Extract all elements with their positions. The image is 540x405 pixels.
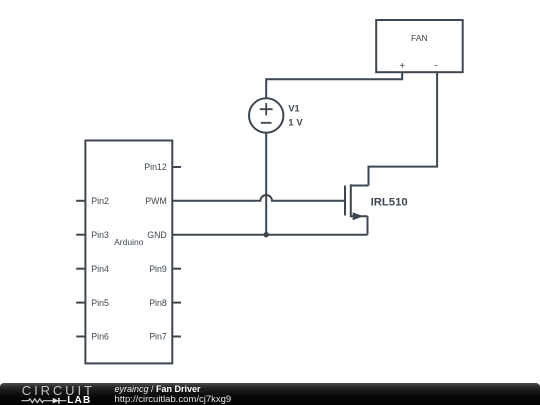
svg-text:Pin5: Pin5 [91,298,109,308]
pin label Pin7 [149,332,167,342]
label FAN + terminal [399,61,405,72]
footer black bar [0,383,540,405]
svg-text:Pin6: Pin6 [91,332,109,342]
svg-text:-: - [434,60,437,71]
pin label Pin3 [91,230,109,240]
pin label Pin5 [91,298,109,308]
transistor Q1 IRL510 (NMOS) [345,184,369,220]
pin label GND [147,230,167,240]
wire V1 negative terminal down to GND net [265,133,267,235]
svg-text:Pin8: Pin8 [149,298,167,308]
wire GND: Arduino GND pin to Q1 source [172,234,367,236]
label FAN [411,33,428,43]
CircuitLab logo: resistor + diode squiggle [21,396,67,405]
svg-text:Pin9: Pin9 [149,264,167,274]
svg-text:1 V: 1 V [288,118,303,128]
svg-text:Pin3: Pin3 [91,230,109,240]
svg-text:Pin2: Pin2 [91,196,109,206]
component FAN (fan box) [376,20,463,72]
component U1 Arduino box [85,141,172,364]
pin Pin2 [76,200,85,202]
label Arduino [114,237,144,247]
pin Pin4 [76,268,85,270]
pin label Pin2 [91,196,109,206]
pin Pin9 [172,268,181,270]
pin label Pin4 [91,264,109,274]
svg-text:Pin7: Pin7 [149,332,167,342]
pin label Pin6 [91,332,109,342]
CircuitLab logo: LAB wordmark [67,396,91,405]
label 1 V [288,118,303,128]
pin Pin12 [172,166,181,168]
pin label Pin8 [149,298,167,308]
pin label Pin12 [144,162,167,172]
svg-text:Pin12: Pin12 [144,162,167,172]
pin Pin6 [76,336,85,338]
svg-text:IRL510: IRL510 [371,197,408,209]
wire FAN + terminal to V1 positive terminal [266,72,402,98]
pin Pin7 [172,336,181,338]
svg-text:+: + [399,61,405,72]
label FAN - terminal [434,60,437,71]
svg-text:GND: GND [147,230,167,240]
pin Pin3 [76,234,85,236]
footer text: url [115,395,232,405]
svg-text:FAN: FAN [411,33,428,43]
pin label Pin9 [149,264,167,274]
wire Q1 source down to GND net [367,216,369,235]
svg-text:V1: V1 [288,104,299,114]
wire FAN - terminal to Q1 drain [369,72,438,185]
CircuitLab logo: CIRCUIT wordmark [22,385,95,396]
voltage source V1 [249,98,283,132]
svg-text:Pin4: Pin4 [91,264,109,274]
svg-text:PWM: PWM [145,196,167,206]
label IRL510 [371,197,408,209]
footer text: author / title [115,384,201,394]
pin Pin5 [76,302,85,304]
label V1 [288,104,299,114]
wire PWM: Arduino PWM pin to Q1 gate (with hop over V1 wire) [172,195,344,201]
svg-text:Arduino: Arduino [114,237,144,247]
pin Pin8 [172,302,181,304]
pin label PWM [145,196,167,206]
junction dot at V1-/GND net [264,232,269,237]
